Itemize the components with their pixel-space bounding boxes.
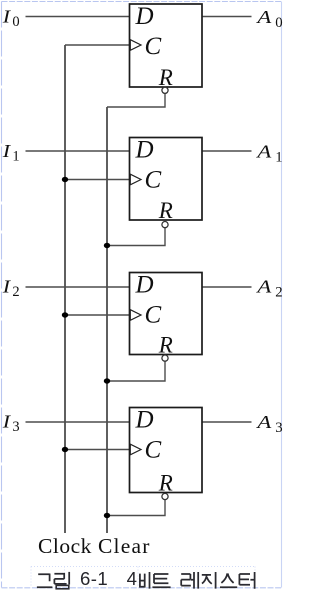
node label I2 bbox=[2, 277, 12, 296]
svg-text:2: 2 bbox=[275, 285, 282, 301]
wire R0 reset route to Clear bus bbox=[107, 93, 165, 107]
U3 reset bubble bbox=[162, 355, 168, 361]
node I1 input wire bbox=[26, 150, 130, 152]
U2 reset bubble bbox=[162, 222, 168, 228]
svg-text:A: A bbox=[255, 278, 272, 297]
svg-text:R: R bbox=[158, 471, 173, 496]
wire R2 reset route to Clear bus bbox=[107, 361, 165, 381]
svg-text:A: A bbox=[255, 413, 272, 432]
U4 clock edge triangle bbox=[130, 444, 141, 455]
svg-text:0: 0 bbox=[12, 14, 19, 30]
svg-text:D: D bbox=[135, 406, 154, 433]
svg-text:D: D bbox=[135, 271, 154, 298]
svg-text:3: 3 bbox=[275, 420, 282, 436]
node label A0 bbox=[255, 8, 272, 27]
node label A3 bbox=[255, 413, 272, 432]
svg-text:1: 1 bbox=[275, 149, 282, 165]
junction clock/C2 bbox=[62, 312, 68, 317]
node label A1 bbox=[255, 143, 272, 162]
svg-text:Clock: Clock bbox=[38, 534, 92, 558]
svg-text:D: D bbox=[135, 136, 154, 163]
svg-text:C: C bbox=[145, 437, 162, 464]
wire R1 reset route to Clear bus bbox=[107, 228, 165, 246]
U4 reset bubble bbox=[162, 493, 168, 499]
D flip-flop U3 box bbox=[130, 273, 203, 355]
node label I1 bbox=[2, 142, 12, 161]
junction clear/R3 bbox=[104, 513, 110, 518]
junction clear/R1 bbox=[104, 243, 110, 248]
node A0 output wire bbox=[202, 16, 252, 18]
svg-text:A: A bbox=[255, 8, 272, 27]
U3 clock edge triangle bbox=[130, 310, 141, 321]
svg-text:3: 3 bbox=[12, 419, 19, 435]
wire C3 clock branch bbox=[65, 449, 130, 451]
node A1 output wire bbox=[202, 150, 252, 152]
junction clock/C1 bbox=[62, 177, 68, 182]
svg-text:0: 0 bbox=[275, 15, 282, 31]
svg-text:R: R bbox=[158, 333, 173, 358]
node I0 input wire bbox=[26, 16, 130, 18]
svg-text:2: 2 bbox=[12, 284, 19, 300]
caption text 그림 6-1 4비트 레지스터 bbox=[37, 572, 69, 589]
node label I3 bbox=[2, 412, 12, 431]
wire C2 clock branch bbox=[65, 314, 130, 316]
U1 reset bubble bbox=[162, 87, 168, 93]
junction clear/R2 bbox=[104, 378, 110, 383]
wire C1 clock branch bbox=[65, 179, 130, 181]
svg-text:Clear: Clear bbox=[98, 534, 151, 558]
U1 clock edge triangle bbox=[130, 40, 141, 51]
svg-text:4: 4 bbox=[127, 568, 137, 589]
svg-text:R: R bbox=[158, 65, 173, 90]
junction clock/C3 bbox=[62, 447, 68, 452]
svg-text:R: R bbox=[158, 198, 173, 223]
wire C0 clock branch bbox=[65, 44, 130, 46]
node A2 output wire bbox=[202, 286, 252, 288]
svg-text:C: C bbox=[145, 33, 162, 60]
svg-text:6-1: 6-1 bbox=[80, 568, 108, 589]
node label A2 bbox=[255, 278, 272, 297]
node label I0 bbox=[2, 7, 12, 26]
svg-text:1: 1 bbox=[12, 149, 19, 165]
wire R3 reset route to Clear bus bbox=[107, 500, 165, 516]
node I3 input wire bbox=[26, 421, 130, 423]
node A3 output wire bbox=[202, 421, 252, 423]
D flip-flop U1 box bbox=[130, 4, 203, 87]
svg-text:A: A bbox=[255, 143, 272, 162]
D flip-flop U2 box bbox=[130, 138, 203, 221]
D flip-flop U4 box bbox=[130, 408, 203, 493]
wire Clock vertical bus bbox=[64, 45, 66, 533]
node I2 input wire bbox=[26, 286, 130, 288]
svg-text:C: C bbox=[145, 167, 162, 194]
U2 clock edge triangle bbox=[130, 174, 141, 185]
svg-text:C: C bbox=[145, 302, 162, 329]
wire Clear vertical bus bbox=[106, 107, 108, 533]
svg-text:D: D bbox=[135, 3, 154, 30]
